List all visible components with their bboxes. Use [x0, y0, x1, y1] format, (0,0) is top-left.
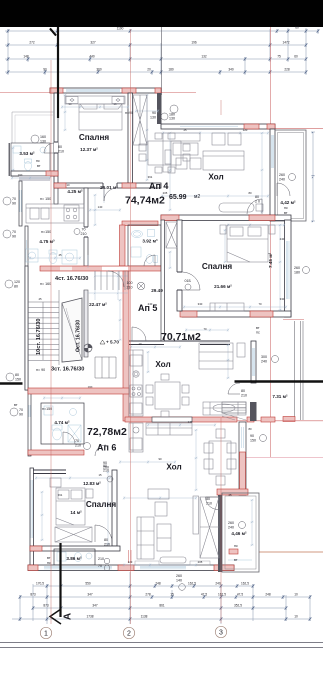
door arc bedroom Ap4 — [104, 188, 117, 201]
svg-text:1: 1 — [44, 631, 48, 638]
svg-text:90: 90 — [43, 68, 47, 72]
svg-text:873: 873 — [43, 604, 49, 608]
svg-text:130: 130 — [40, 140, 46, 144]
top wall hall Ap4 — [161, 124, 275, 129]
svg-text:3ст. 16.76/30: 3ст. 16.76/30 — [51, 367, 84, 373]
svg-text:10ст. 16.76/30: 10ст. 16.76/30 — [36, 319, 42, 355]
red wall y450 — [28, 450, 84, 455]
svg-text:361: 361 — [58, 493, 63, 497]
door arc balcony 4.42 — [277, 183, 290, 196]
upper 4-step flight — [95, 271, 125, 290]
bed Ap5 — [220, 225, 275, 262]
axis line x161 — [161, 27, 163, 95]
svg-text:7.31 м²: 7.31 м² — [272, 394, 288, 399]
dining table Ap6 — [204, 429, 236, 485]
svg-text:440: 440 — [89, 55, 95, 59]
svg-text:65.99: 65.99 — [169, 194, 187, 201]
svg-text:210: 210 — [206, 502, 212, 506]
svg-text:260: 260 — [228, 521, 234, 525]
bath 3.86 fixtures — [57, 552, 92, 562]
walls — [0, 88, 323, 572]
bedroom Ap4 bottom wall — [54, 183, 161, 189]
svg-text:240: 240 — [228, 526, 234, 530]
svg-text:210: 210 — [98, 557, 104, 561]
ticks — [19, 584, 312, 621]
bath 3.86 box — [54, 549, 95, 565]
svg-text:4,46 м²: 4,46 м² — [231, 531, 247, 536]
svg-text:90: 90 — [158, 457, 162, 461]
kitchen Ap4 row2 — [26, 249, 77, 264]
svg-text:80: 80 — [14, 285, 18, 289]
door arc hall Ap5 to hol — [132, 327, 146, 341]
svg-text:60: 60 — [295, 26, 299, 30]
dim line row 3 — [5, 58, 306, 60]
door circle 260/240 balcony — [279, 173, 296, 182]
stair block left wall — [25, 266, 28, 390]
kitchen Ap6 — [129, 423, 143, 452]
svg-text:352,5: 352,5 — [234, 604, 242, 608]
svg-text:347: 347 — [92, 604, 98, 608]
right wall upper — [270, 129, 275, 221]
black header band — [0, 0, 323, 27]
left outer wall mid (y226-390) — [25, 226, 28, 390]
window 120/80 — [5, 280, 51, 289]
svg-text:22.47 м²: 22.47 м² — [89, 302, 107, 307]
opening 90/260 — [103, 461, 109, 470]
bedroom Ap5 right wall — [285, 220, 292, 317]
svg-text:20: 20 — [147, 68, 151, 72]
dim line row 2 — [5, 44, 306, 46]
svg-text:10: 10 — [66, 183, 70, 187]
svg-text:70,71м2: 70,71м2 — [161, 331, 201, 343]
svg-text:4ст. 16.76/30: 4ст. 16.76/30 — [55, 276, 88, 282]
svg-text:70: 70 — [258, 302, 262, 306]
svg-text:н=90: н=90 — [125, 111, 133, 115]
small room 3.53 outline — [9, 143, 50, 176]
svg-text:210: 210 — [241, 394, 247, 398]
svg-text:130: 130 — [150, 116, 156, 120]
terrace 7.31 right rails — [283, 321, 303, 422]
svg-text:180: 180 — [294, 271, 300, 275]
door arc bedroom Ap5 — [182, 272, 200, 290]
chain verticals — [20, 572, 310, 624]
WC 4.74 box — [28, 390, 84, 456]
svg-text:240: 240 — [279, 178, 285, 182]
stairs — [28, 271, 129, 394]
svg-text:60: 60 — [294, 55, 298, 59]
window 70/90 b — [3, 230, 51, 239]
dining table Ap5 — [146, 374, 189, 417]
svg-text:210: 210 — [75, 444, 81, 448]
terrace 4.46 mark — [228, 559, 252, 561]
armchairs hall Ap4 — [212, 133, 241, 145]
wardrobe Ap6 bed — [55, 527, 92, 542]
svg-text:75: 75 — [277, 55, 281, 59]
footer double lines — [0, 643, 323, 648]
tick marks — [7, 29, 320, 74]
svg-text:29.49: 29.49 — [151, 288, 163, 293]
svg-text:н= 160: н= 160 — [40, 282, 51, 286]
svg-text:180: 180 — [168, 68, 174, 72]
svg-text:н= 90: н= 90 — [36, 368, 45, 372]
svg-text:80: 80 — [206, 497, 210, 501]
svg-text:330: 330 — [198, 302, 203, 306]
bath 3.53 fixtures — [13, 146, 46, 171]
wall x250 y402 — [250, 402, 257, 421]
svg-text:12.37 м²: 12.37 м² — [80, 147, 98, 152]
svg-text:15: 15 — [170, 593, 174, 597]
svg-text:12.83 м²: 12.83 м² — [83, 481, 101, 486]
hall Ap6 right wall — [239, 422, 246, 495]
bottom dims — [12, 572, 312, 624]
svg-text:пс: пс — [234, 544, 238, 548]
bed Ap4 top — [65, 96, 125, 130]
hall Ap5 right wall — [251, 341, 256, 383]
svg-text:160: 160 — [40, 135, 46, 139]
svg-text:10: 10 — [294, 593, 298, 597]
door 80/210 terrace 4.46 — [206, 497, 212, 506]
svg-text:Хол: Хол — [155, 360, 170, 369]
wardrobe Ap6 hall — [200, 497, 219, 558]
door 80/210 terrace 7.31 — [241, 389, 247, 398]
door arc bedroom Ap6 — [95, 525, 112, 542]
svg-text:873: 873 — [30, 593, 36, 597]
red line y457 to edge — [246, 457, 323, 459]
svg-text:м2: м2 — [194, 194, 200, 200]
svg-text:1738: 1738 — [86, 615, 93, 619]
svg-text:70: 70 — [75, 439, 79, 443]
sideboard Ap5 — [203, 402, 246, 415]
bedroom Ap4 right wall / closet wall — [128, 93, 133, 183]
door 100/210 hall5 — [127, 281, 145, 290]
svg-text:Хол: Хол — [208, 173, 223, 182]
dining table Ap4 — [139, 133, 190, 173]
svg-text:Спалня: Спалня — [202, 262, 233, 271]
door label 90/130 top — [125, 105, 178, 121]
door arc terrace 4.46 — [206, 497, 219, 510]
svg-text:240: 240 — [280, 237, 285, 241]
svg-text:70: 70 — [98, 564, 102, 568]
svg-text:240: 240 — [215, 582, 221, 586]
svg-text:160: 160 — [18, 173, 23, 177]
door arc hall Ap4 — [247, 199, 262, 214]
counter Ap6 top — [146, 423, 192, 435]
window 260/140 bottom — [176, 574, 185, 590]
svg-text:162,5: 162,5 — [241, 582, 249, 586]
lower 3-step flight — [95, 357, 116, 378]
svg-text:327: 327 — [90, 41, 96, 45]
svg-text:1138: 1138 — [141, 615, 148, 619]
svg-text:70: 70 — [203, 327, 207, 331]
svg-text:1472: 1472 — [282, 41, 289, 45]
section line B right — [235, 380, 323, 382]
svg-text:45: 45 — [38, 297, 42, 301]
door arc terrace 7.31 — [228, 383, 240, 394]
sofa Ap6 — [137, 502, 171, 559]
svg-text:1190: 1190 — [117, 27, 124, 31]
grid axis 2 red line — [130, 29, 132, 624]
svg-text:150: 150 — [250, 439, 256, 443]
red line bedroom terrace — [283, 319, 304, 321]
up flight trapezoid — [62, 298, 82, 362]
svg-text:248: 248 — [155, 582, 161, 586]
numbers — [30, 582, 298, 619]
svg-text:4.74 м²: 4.74 м² — [54, 420, 70, 425]
wardrobe Ap4 — [133, 95, 147, 145]
dim line row 4 — [5, 71, 306, 73]
right margin dim chain — [311, 132, 315, 222]
svg-text:300: 300 — [261, 355, 267, 359]
red axis verticals — [0, 27, 323, 457]
door 80/210 hall Ap4 — [255, 195, 260, 204]
svg-text:120: 120 — [128, 560, 133, 564]
svg-text:7.45 м²: 7.45 м² — [268, 252, 273, 268]
svg-text:100: 100 — [127, 281, 133, 285]
door arc 3.53 — [44, 143, 54, 153]
svg-text:3: 3 — [219, 630, 223, 637]
red wall y417 Ap5-Ap6 — [125, 417, 237, 422]
bedroom Ap5 bottom wall — [180, 311, 291, 317]
svg-text:Спалня: Спалня — [86, 500, 117, 509]
svg-text:н=150: н=150 — [41, 230, 51, 234]
svg-text:Хол: Хол — [166, 463, 181, 472]
svg-text:140: 140 — [98, 205, 103, 209]
svg-text:132: 132 — [201, 55, 207, 59]
svg-text:340: 340 — [228, 68, 234, 72]
window 80/150 — [6, 368, 45, 382]
svg-text:90: 90 — [12, 202, 16, 206]
svg-text:170,5: 170,5 — [36, 582, 44, 586]
grid axis 3 red line — [220, 100, 222, 623]
svg-text:70: 70 — [82, 228, 86, 232]
coffee table Ap6 — [148, 489, 169, 499]
section line A top — [50, 27, 58, 118]
svg-text:210: 210 — [104, 543, 110, 547]
svg-text:347: 347 — [87, 593, 93, 597]
svg-text:248: 248 — [265, 593, 271, 597]
svg-text:21.66 м²: 21.66 м² — [214, 284, 232, 289]
svg-text:360: 360 — [96, 68, 102, 72]
svg-text:Спалня: Спалня — [79, 133, 110, 142]
window 70/90 a — [3, 197, 51, 206]
left outer wall upper (y181-226) — [19, 181, 22, 226]
svg-text:3.53 м²: 3.53 м² — [19, 151, 35, 156]
dim line row 1 — [5, 30, 318, 32]
svg-text:861: 861 — [159, 604, 165, 608]
svg-text:80: 80 — [241, 389, 245, 393]
kitchen Ap4 row1 — [26, 204, 84, 223]
door arc hall Ap5 entry — [108, 271, 124, 287]
red pair near axis2 bottom — [129, 550, 131, 563]
svg-text:пс: пс — [36, 159, 40, 163]
svg-text:240: 240 — [261, 360, 267, 364]
dim numbers — [23, 26, 299, 72]
red-orange line y552 — [259, 551, 323, 553]
svg-text:80: 80 — [255, 195, 259, 199]
stair rail circle — [84, 344, 92, 352]
bedroom Ap5 top wall — [161, 215, 291, 221]
door circle 300/240 — [261, 355, 279, 364]
axis bubbles — [40, 626, 226, 638]
svg-text:210: 210 — [81, 232, 87, 236]
svg-text:550: 550 — [85, 582, 91, 586]
furniture — [13, 95, 275, 563]
svg-text:47,5: 47,5 — [201, 593, 207, 597]
svg-text:45: 45 — [58, 253, 62, 257]
svg-text:210: 210 — [58, 150, 64, 154]
tv hall Ap4 — [219, 203, 263, 212]
bedroom Ap5 left wall — [177, 220, 183, 311]
grid axis 1 red line — [50, 60, 52, 624]
planter hatch — [222, 402, 246, 420]
svg-text:25: 25 — [228, 493, 232, 497]
svg-text:3.86 м²: 3.86 м² — [66, 556, 82, 561]
svg-text:80: 80 — [248, 427, 252, 431]
svg-text:+ 5.70: + 5.70 — [106, 340, 119, 345]
door circles bath 3.86 — [98, 557, 110, 571]
svg-text:3.92 м³: 3.92 м³ — [142, 239, 158, 244]
window 70/90 c — [10, 403, 52, 417]
svg-text:140: 140 — [176, 579, 182, 583]
svg-text:162,5: 162,5 — [188, 582, 196, 586]
tv Ap6 — [160, 496, 199, 563]
interior dim chains — [11, 94, 287, 567]
dresser Ap5 bed — [210, 303, 244, 311]
svg-text:4.75 м³: 4.75 м³ — [39, 239, 55, 244]
svg-text:278: 278 — [145, 593, 151, 597]
svg-text:4,42 м²: 4,42 м² — [280, 200, 296, 205]
svg-text:вт: вт — [234, 558, 238, 562]
svg-text:330: 330 — [280, 297, 285, 301]
svg-text:260: 260 — [176, 574, 182, 578]
level +5.70 — [100, 340, 119, 345]
section line A bottom — [50, 27, 74, 624]
svg-text:н=150: н=150 — [42, 407, 52, 411]
svg-text:148: 148 — [23, 55, 29, 59]
svg-text:Ап 4: Ап 4 — [149, 181, 168, 191]
svg-text:пс: пс — [256, 331, 260, 335]
sofa group hall Ap4 — [163, 133, 244, 172]
top wall bedroom Ap4 — [50, 88, 161, 93]
door arc bath 3.92 — [144, 255, 155, 266]
wall below 3.53 — [11, 171, 58, 176]
svg-text:150: 150 — [15, 378, 21, 382]
svg-text:2: 2 — [127, 631, 131, 638]
door circle 260/240 terrace — [228, 521, 246, 530]
red wall corridor x122 — [120, 221, 159, 266]
svg-text:228: 228 — [284, 68, 290, 72]
wall x84 stair landing — [84, 290, 88, 357]
hall Ap5 bottom wall — [128, 341, 230, 345]
svg-text:26.01 м²: 26.01 м² — [100, 185, 118, 190]
svg-text:120: 120 — [14, 280, 20, 284]
svg-text:70: 70 — [12, 230, 16, 234]
svg-text:25: 25 — [183, 128, 187, 132]
svg-text:01Б: 01Б — [185, 279, 192, 283]
svg-text:72,78м2: 72,78м2 — [87, 426, 127, 438]
svg-text:пс: пс — [47, 561, 51, 565]
red wall x123 stairs-kitchen — [123, 271, 129, 421]
svg-text:90: 90 — [19, 413, 23, 417]
svg-text:10: 10 — [294, 615, 298, 619]
svg-text:47,5: 47,5 — [237, 593, 243, 597]
niche above 3.53 — [12, 112, 54, 143]
wall x84 kitchen divider — [84, 188, 88, 266]
svg-text:90: 90 — [250, 434, 254, 438]
bedroom Ap4 left wall — [54, 93, 58, 187]
svg-text:80: 80 — [58, 145, 62, 149]
svg-text:74,74м2: 74,74м2 — [125, 195, 165, 207]
door circle 90/150 — [250, 434, 267, 443]
svg-text:90: 90 — [12, 235, 16, 239]
bottom wall building — [28, 549, 238, 571]
svg-text:361: 361 — [148, 175, 153, 179]
svg-text:70: 70 — [19, 408, 23, 412]
svg-text:вт: вт — [47, 556, 51, 560]
svg-text:210: 210 — [127, 286, 133, 290]
svg-text:80: 80 — [104, 538, 108, 542]
corridor spine x161 — [161, 220, 165, 341]
red line y420 to edge — [237, 420, 323, 422]
svg-text:260: 260 — [294, 266, 300, 270]
left flight steps — [28, 290, 59, 365]
door circle 160/130 — [31, 135, 46, 144]
kitchen Ap5 — [129, 350, 143, 416]
WC 4.74 fixtures — [44, 406, 81, 442]
svg-text:пс: пс — [284, 206, 288, 210]
svg-text:80: 80 — [248, 191, 252, 195]
bed Ap6 — [50, 478, 93, 525]
svg-text:90: 90 — [152, 111, 156, 115]
svg-text:А: А — [63, 613, 74, 620]
red wall y489 terrace top — [217, 489, 248, 495]
tv wall Ap5 — [199, 343, 245, 369]
svg-text:120: 120 — [243, 128, 248, 132]
step wall x157 — [157, 93, 162, 124]
svg-text:вт: вт — [256, 326, 260, 330]
svg-text:н= 150: н= 150 — [40, 197, 51, 201]
door label 80/210 bedroom4 — [58, 145, 64, 154]
bath 3.92 box — [128, 225, 161, 266]
corridor closet Ap5 — [166, 222, 177, 248]
landing lines — [84, 271, 128, 357]
terrace 4.46 outline — [222, 493, 259, 572]
svg-text:90: 90 — [103, 464, 107, 468]
balcony 4.42 outline — [275, 130, 306, 221]
grey band under 3.53 — [19, 176, 50, 181]
svg-text:вт: вт — [37, 164, 41, 168]
svg-text:10: 10 — [138, 342, 142, 346]
wall x219 hall Ap6 — [218, 495, 222, 572]
door circle 260/180 — [294, 266, 310, 275]
svg-text:вт: вт — [284, 211, 288, 215]
svg-text:вт: вт — [14, 403, 18, 407]
svg-text:162,5: 162,5 — [218, 593, 226, 597]
svg-text:210: 210 — [103, 469, 109, 473]
wall stub x54 below — [54, 188, 58, 204]
svg-text:Ап 6: Ап 6 — [97, 443, 116, 453]
door arc wc Ap6 — [63, 432, 75, 444]
svg-text:260: 260 — [279, 173, 285, 177]
svg-text:205: 205 — [198, 560, 203, 564]
dim line rows — [33, 585, 253, 587]
svg-text:272: 272 — [29, 41, 35, 45]
stair bottom wall — [28, 388, 129, 394]
door arc corridor Ap6 — [95, 445, 106, 456]
bath 3.92 fixtures — [131, 230, 158, 264]
top dimension lines — [5, 26, 320, 76]
svg-text:196: 196 — [191, 41, 197, 45]
